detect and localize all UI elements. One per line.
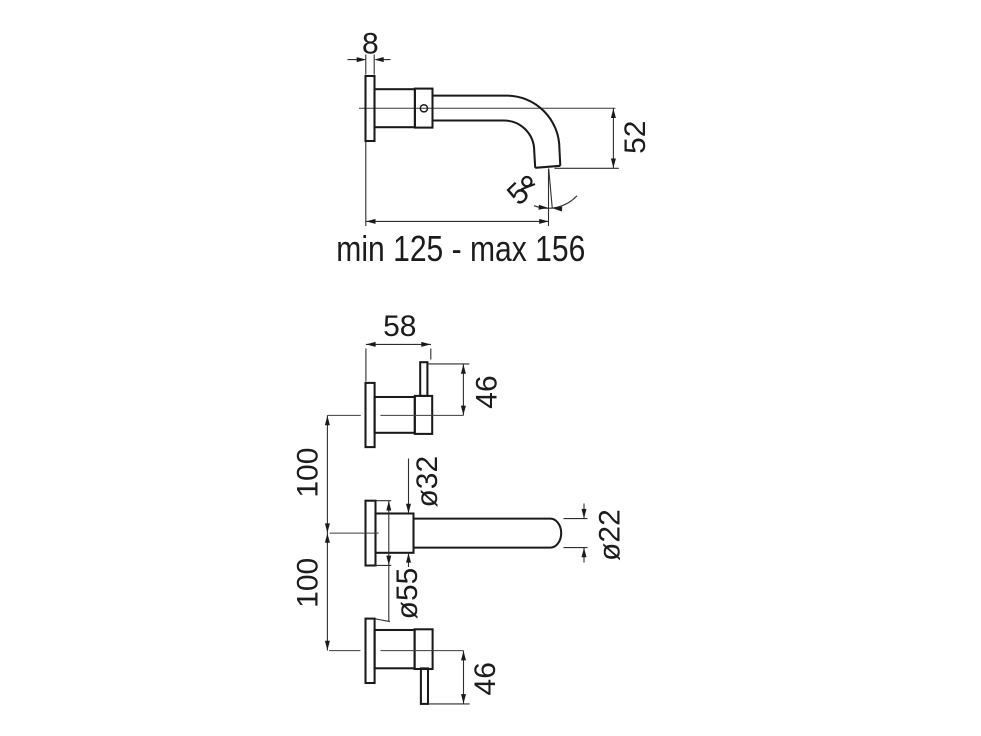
svg-text:100: 100 [291, 448, 324, 498]
svg-text:52: 52 [619, 121, 652, 154]
svg-text:min 125 - max 156: min 125 - max 156 [336, 228, 585, 269]
svg-text:8: 8 [362, 28, 379, 61]
svg-text:46: 46 [469, 662, 502, 695]
svg-text:ø55: ø55 [391, 568, 424, 620]
svg-text:46: 46 [471, 375, 504, 408]
svg-text:ø32: ø32 [411, 456, 444, 508]
svg-text:58: 58 [383, 310, 416, 343]
svg-text:100: 100 [291, 558, 324, 608]
svg-text:ø22: ø22 [594, 509, 627, 561]
